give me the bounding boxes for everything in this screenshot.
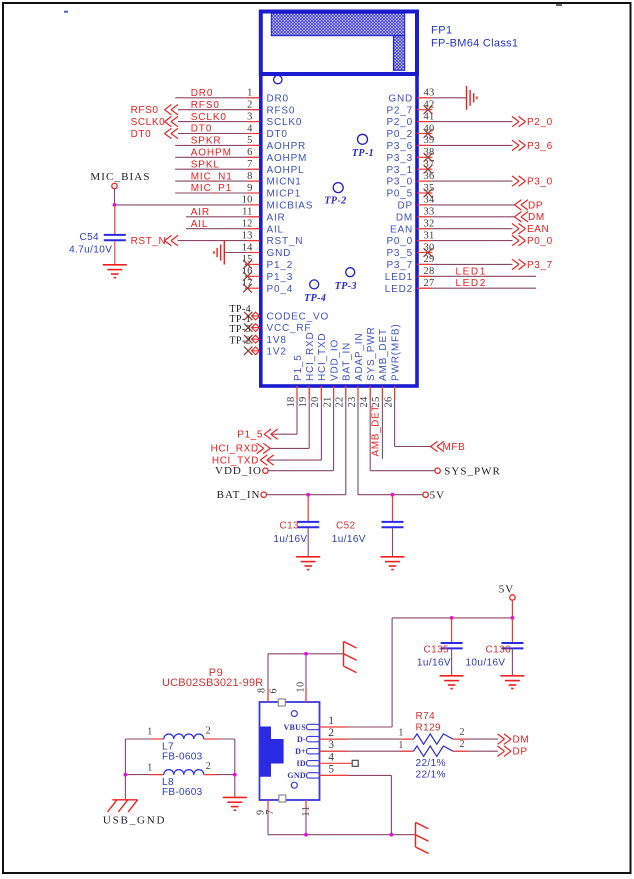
pin 2 (RFS0) [178,100,295,117]
svg-text:43: 43 [424,88,435,99]
off-page connector P0_0 [512,235,553,247]
svg-text:UCB02SB3021-99R: UCB02SB3021-99R [162,677,263,689]
svg-text:MICP1: MICP1 [267,189,302,200]
no-connect X VCC_RF [244,323,252,331]
IC index circle [274,75,282,83]
svg-text:7: 7 [247,159,252,170]
pin 6 (AOHPM) [175,147,307,164]
ferrite bead L8 [147,761,211,775]
svg-text:R74: R74 [416,711,436,722]
svg-text:22: 22 [335,397,346,408]
svg-text:SYS_PWR: SYS_PWR [444,465,501,477]
svg-text:BAT_IN: BAT_IN [342,342,353,381]
power port VDD_IO [215,465,334,477]
value 22/1% R74 [416,758,446,769]
no-ERC marker CODEC_VO [252,312,260,320]
test point TP-3 [346,268,355,277]
svg-text:FB-0603: FB-0603 [162,787,203,798]
pin 9 (MICP1) [175,183,301,200]
net label AOHPM [191,148,232,159]
svg-text:LED1: LED1 [456,266,487,277]
pin 40 (P0_2) [386,123,434,140]
P9 pin 10 number [296,681,307,692]
svg-text:P3_1: P3_1 [386,165,413,176]
pin 31 (P0_0) [386,230,512,247]
pin 15 (P1_2) [242,254,293,271]
svg-text:1: 1 [398,740,404,751]
net label SPKR [191,136,222,147]
svg-text:LED2: LED2 [385,284,413,295]
ground pin 43 [467,86,477,110]
wire L7 left [125,738,163,740]
svg-text:C136: C136 [485,644,511,655]
svg-text:27: 27 [424,278,435,289]
svg-text:9: 9 [247,183,252,194]
svg-text:TP-2: TP-2 [229,336,251,347]
pin 1 (DR0) [175,88,289,105]
svg-text:LED2: LED2 [456,278,487,289]
wire 5V rail [392,618,512,727]
svg-text:PWR(MFB): PWR(MFB) [390,324,401,382]
svg-text:DT0: DT0 [267,129,288,140]
off-page connector DM [515,212,545,224]
svg-text:6: 6 [268,688,279,694]
ferrite bead L7 [147,725,211,739]
power port 5V [423,489,445,501]
junction L8 left [124,773,128,777]
svg-text:SCLK0: SCLK0 [267,117,303,128]
svg-text:DM: DM [528,212,545,223]
P9 pin 1 (VBUS) [283,715,334,732]
svg-text:C135: C135 [423,644,449,655]
P9 pin 6 number [268,688,279,694]
off-page connector MFB [431,441,466,453]
ground C54 [103,265,127,278]
pin 24 (SYS_PWR) [359,326,377,470]
svg-text:P3_5: P3_5 [386,248,413,259]
net label SPKL [191,159,220,170]
wire L8 right [204,774,235,776]
off-page connector DP [498,746,528,758]
svg-text:P0_0: P0_0 [386,236,413,247]
pin 18 (P1_5) [286,354,304,434]
junction ADAP_IN/C52 [391,493,395,497]
svg-text:P2_7: P2_7 [386,105,413,116]
off-page connector P3_0 [512,176,553,188]
svg-text:11: 11 [301,806,312,817]
svg-text:20: 20 [310,397,321,408]
junction L8 right [233,773,237,777]
svg-text:P0_0: P0_0 [527,236,553,247]
svg-text:P3_0: P3_0 [386,177,413,188]
off-page connector RST_N [131,235,178,247]
svg-text:1V2: 1V2 [267,346,287,357]
pin 35 (P0_5) [386,183,434,200]
wire SYS_PWR [370,470,435,472]
pin (CODEC_VO) [251,312,329,323]
svg-text:HCI_RXD: HCI_RXD [305,332,316,382]
svg-text:FB-0603: FB-0603 [162,752,203,763]
pin 8 (MICN1) [175,171,301,188]
pin 36 (P3_0) [386,171,512,188]
net label SCLK0 [191,112,227,123]
svg-text:AIR: AIR [191,207,210,218]
svg-text:C13: C13 [279,521,299,532]
pin 11 (AIR) [186,207,286,224]
svg-text:LED1: LED1 [385,272,413,283]
svg-text:SCLK0: SCLK0 [131,117,166,128]
pin 27 (LED2) [385,278,536,295]
svg-text:4.7u/10V: 4.7u/10V [69,244,112,255]
off-page connector DP [515,200,544,212]
wire ADAP_IN [358,494,423,496]
svg-text:TP-3: TP-3 [335,281,357,292]
P9 pin 11 number [301,806,312,817]
svg-text:CODEC_VO: CODEC_VO [267,312,330,323]
stray mark top-right [556,4,562,6]
svg-text:P0_5: P0_5 [386,189,413,200]
svg-text:AOHPM: AOHPM [267,153,308,164]
svg-text:RFS0: RFS0 [191,100,220,111]
no-connect square ID [352,760,358,766]
svg-text:13: 13 [242,230,253,241]
svg-text:MIC_N1: MIC_N1 [191,171,233,182]
svg-text:FP-BM64 Class1: FP-BM64 Class1 [431,38,518,50]
svg-text:GND: GND [287,771,306,780]
junction 5V/C135 [450,616,454,620]
off-page connector P2_0 [512,116,553,128]
designator L8 [162,777,174,788]
pin (1V8) [251,335,287,346]
pin 26 (PWR(MFB)) [383,324,401,447]
no-connect X 1V2 [244,347,252,355]
wire D+ to R129 [320,750,414,752]
antenna hatch area [271,13,404,70]
svg-text:DR0: DR0 [267,93,289,104]
net label AMB_DET [371,405,382,456]
svg-text:1: 1 [247,88,252,99]
svg-text:2: 2 [247,100,252,111]
svg-text:4: 4 [247,123,253,134]
pin 17 (P0_4) [242,278,293,295]
svg-text:DP: DP [528,200,543,211]
svg-text:P0_4: P0_4 [267,284,294,295]
svg-text:5V: 5V [499,583,514,595]
svg-text:26: 26 [383,397,394,408]
svg-text:8: 8 [247,171,252,182]
power port BAT_IN [217,489,267,501]
net label MIC_P1 [191,183,233,194]
svg-text:EAN: EAN [527,224,549,235]
svg-text:10: 10 [242,195,253,206]
P9 pin 2 (D-) [297,727,334,744]
junction 5V/C136 [511,616,515,620]
no-connect X pin 16 [243,272,252,281]
no-connect X pin 40 [424,129,433,138]
svg-text:22/1%: 22/1% [416,758,446,769]
resistor R129 [398,739,498,756]
pin 37 (P3_1) [386,159,434,176]
pin 30 (P3_5) [386,242,434,259]
capacitor C136 [465,618,523,676]
svg-text:10u/16V: 10u/16V [465,657,505,668]
P9 pin 4 (ID) [297,751,335,768]
wire USB_GND vertical [124,739,126,800]
label TP-3 [229,324,251,335]
svg-text:2: 2 [460,727,466,738]
svg-text:C52: C52 [336,521,356,532]
no-ERC marker 1V8 [252,335,260,343]
power port SYS_PWR [435,465,501,477]
no-connect X pin 30 [424,248,433,257]
svg-text:2: 2 [206,725,212,736]
wire D- to R74 [320,738,414,740]
off-page connector SCLK0 [131,116,178,128]
connector P9 inner circles [291,711,297,789]
svg-text:FP1: FP1 [431,25,453,37]
off-page connector P1_5 [237,429,297,441]
value 22/1% R129 [416,769,446,780]
svg-text:P3_6: P3_6 [527,141,553,152]
net label DR0 [191,88,214,99]
svg-text:RFS0: RFS0 [267,105,296,116]
wire shield top [268,654,344,702]
svg-text:12: 12 [242,219,253,230]
svg-text:USB_GND: USB_GND [103,814,166,826]
svg-text:AMB_DET: AMB_DET [378,328,389,381]
svg-text:2: 2 [460,739,466,750]
svg-text:R129: R129 [416,722,442,733]
svg-text:DM: DM [396,212,413,223]
svg-text:P0_2: P0_2 [386,129,413,140]
designator P9 [209,667,223,679]
svg-text:DR0: DR0 [191,88,214,99]
pin 22 (BAT_IN) [335,342,353,495]
svg-text:5: 5 [328,763,334,775]
svg-text:4: 4 [328,751,334,763]
svg-text:1: 1 [147,762,153,773]
pin 20 (HCI_TXD) [310,333,328,460]
svg-text:1: 1 [147,727,153,738]
label TP-1 [352,148,374,159]
svg-text:31: 31 [424,230,435,241]
svg-text:P1_5: P1_5 [293,354,304,381]
svg-text:RST_N: RST_N [267,236,304,247]
pin 13 (RST_N) [178,230,304,247]
svg-text:1: 1 [398,728,404,739]
net label RFS0 [191,100,220,111]
no-connect X pin 15 [243,260,252,269]
op-amp U1 FP1 antenna block [261,12,417,75]
svg-text:RST_N: RST_N [131,236,167,247]
svg-text:AIL: AIL [267,224,284,235]
no-connect X pin 17 [243,284,252,293]
svg-text:11: 11 [242,207,253,218]
svg-text:TP-4: TP-4 [304,293,326,304]
svg-text:DP: DP [398,201,414,212]
pin 39 (P3_6) [386,135,512,152]
P9 pin 5 (GND) [287,763,334,780]
svg-text:P3_0: P3_0 [527,177,553,188]
no-connect X CODEC_VO [244,312,252,320]
svg-text:ID: ID [297,759,307,768]
pin (1V2) [251,346,287,357]
svg-text:RFS0: RFS0 [131,105,159,116]
ground pin 14 [214,241,224,265]
svg-text:5V: 5V [430,489,445,501]
label TP-2 [324,196,346,207]
label TP-2 [229,336,251,347]
svg-text:24: 24 [359,396,370,407]
IC FP1 body [261,74,417,386]
pin 4 (DT0) [178,123,288,140]
svg-text:SCLK0: SCLK0 [191,112,227,123]
connector P9 mounting squares [278,699,286,802]
svg-text:P1_3: P1_3 [267,272,294,283]
value FP-BM64 Class1 [431,38,518,50]
no-connect X pin 37 [424,165,433,174]
junction BAT_IN/C13 [306,493,310,497]
svg-text:MIC_BIAS: MIC_BIAS [90,171,150,183]
no-connect X 1V8 [244,335,252,343]
pin 34 (DP) [398,195,515,212]
svg-text:DP: DP [513,747,528,758]
svg-text:GND: GND [267,248,292,259]
value UCB02SB3021-99R [162,677,263,689]
junction shield bottom 1 [304,833,308,837]
pin 25 (AMB_DET) [371,328,389,459]
no-connect X pin 35 [424,189,433,198]
capacitor C52 [332,495,404,557]
ground C135 [440,676,464,689]
svg-text:P1_2: P1_2 [267,260,294,271]
pin 10 (MICBIAS) [115,195,314,212]
no-ERC marker VCC_RF [252,324,260,332]
P9 pin 7 number [265,809,276,815]
resistor R74 [398,727,498,744]
svg-text:MIC_P1: MIC_P1 [191,183,233,194]
svg-text:DT0: DT0 [131,129,152,140]
value FB-0603 L7 [162,752,203,763]
svg-text:HCI_RXD: HCI_RXD [211,444,259,455]
pin 3 (SCLK0) [178,111,302,128]
wire L8 left [125,774,163,776]
svg-text:HCI_TXD: HCI_TXD [317,333,328,381]
svg-text:MICBIAS: MICBIAS [267,201,314,212]
pin 16 (P1_3) [242,266,293,283]
pin 21 (VDD_IO) [322,339,340,471]
svg-text:DM: DM [513,735,530,746]
svg-text:P2_0: P2_0 [527,117,553,128]
wire VBUS [320,726,393,728]
svg-text:VBUS: VBUS [283,723,306,732]
svg-text:P3_7: P3_7 [386,260,413,271]
designator FP1 [431,25,453,37]
pin 5 (AOHPR) [175,135,306,152]
net label DT0 [191,124,213,135]
svg-text:33: 33 [424,207,435,218]
svg-text:MFB: MFB [443,442,466,453]
svg-text:2: 2 [206,761,212,772]
net label USB_GND [103,814,166,826]
no-connect X pin 38 [424,153,433,162]
connector P9 plug shape [260,727,284,777]
power port MIC_BIAS [90,171,150,205]
svg-text:ADAP_IN: ADAP_IN [354,333,365,381]
P9 pin 8 number [256,687,267,693]
svg-text:AMB_DET: AMB_DET [371,405,382,456]
P9 pin 9 number [256,809,267,815]
pin 12 (AIL) [186,219,284,236]
svg-text:MICN1: MICN1 [267,177,302,188]
wire MFB [395,446,431,448]
net label MIC_N1 [191,171,233,182]
svg-text:3: 3 [328,739,334,751]
svg-text:SPKL: SPKL [191,159,220,170]
svg-text:6: 6 [247,147,252,158]
svg-text:C54: C54 [79,232,99,243]
wire L7 right [204,738,235,740]
svg-text:AIR: AIR [267,212,286,223]
svg-text:22/1%: 22/1% [416,769,446,780]
svg-text:5: 5 [247,135,252,146]
label TP-1 [229,314,251,325]
svg-text:P3_7: P3_7 [527,260,553,271]
svg-text:AOHPR: AOHPR [267,141,307,152]
wire gnd vertical right [234,739,236,797]
wire shield bottom [268,800,416,835]
pin 33 (DM) [396,207,515,224]
capacitor C54 [69,205,126,265]
svg-text:GND: GND [388,93,413,104]
svg-text:EAN: EAN [390,224,413,235]
value FB-0603 L8 [162,787,203,798]
off-page connector EAN [512,224,549,236]
stray mark top-left [64,11,68,13]
capacitor C13 [273,495,319,557]
wire GND P9 [320,775,392,834]
svg-text:AIL: AIL [191,219,209,230]
svg-text:P3_6: P3_6 [386,141,413,152]
chassis ground USB_GND [108,800,138,812]
chassis ground top [344,642,357,673]
svg-text:14: 14 [242,242,253,253]
pin 28 (LED1) [385,266,536,283]
svg-text:3: 3 [247,111,252,122]
svg-text:10: 10 [296,681,307,692]
pin 7 (AOHPL) [175,159,304,176]
label TP-4 [304,293,326,304]
chassis ground bottom [416,822,429,853]
svg-text:21: 21 [322,397,333,408]
off-page connector DT0 [131,128,178,140]
designator R129 [416,722,442,733]
svg-text:P3_3: P3_3 [386,153,413,164]
svg-text:1V8: 1V8 [267,335,287,346]
svg-text:19: 19 [298,397,309,408]
ground C136 [500,676,524,689]
designator L7 [162,741,174,752]
svg-text:VDD_IO: VDD_IO [329,339,340,381]
test point TP-4 [310,280,319,289]
pin 38 (P3_3) [386,147,434,164]
pin (VCC_RF) [251,323,311,334]
test point TP-1 [358,134,368,144]
net label LED1 [456,266,487,277]
svg-text:SPKR: SPKR [191,136,222,147]
pin 14 (GND) [224,242,291,259]
designator R74 [416,711,436,722]
